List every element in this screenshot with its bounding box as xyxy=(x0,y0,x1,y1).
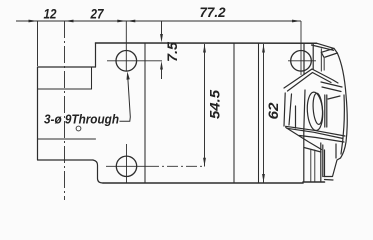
dim 7.5 top shaft xyxy=(161,21,163,35)
centerline bottom hole horizontal xyxy=(106,165,148,167)
arrow 7.5 down xyxy=(160,34,163,43)
leg x304 xyxy=(303,131,305,182)
facet line right xyxy=(328,96,340,99)
flange internal line y139 xyxy=(38,138,96,140)
head vertical stub x324 xyxy=(323,58,325,71)
dim 62 line xyxy=(263,44,265,183)
roller bracket left edge xyxy=(304,90,305,131)
head top inner parallel xyxy=(312,45,334,50)
head left edge pair xyxy=(284,93,285,126)
leg x315 xyxy=(314,150,316,182)
arrow 54.5 up xyxy=(203,44,206,53)
lever upper parallel edge xyxy=(287,128,343,138)
leg x311 xyxy=(310,150,312,182)
leader line xyxy=(120,78,131,122)
head chamfer facet xyxy=(321,48,337,57)
actuator head pictorial xyxy=(284,43,347,182)
centerline bottom hole vertical xyxy=(126,144,128,183)
inner curve right xyxy=(341,95,344,154)
hole right (pivot) xyxy=(291,51,312,72)
band line 1 xyxy=(321,82,342,87)
head vertical edge x313 xyxy=(312,43,314,69)
body internal vertical x145 xyxy=(144,43,146,183)
head right outer edge xyxy=(337,53,347,158)
svg-text:7.5: 7.5 xyxy=(164,42,180,62)
arrow 54.5 down xyxy=(203,158,206,167)
arrow 77.2 right xyxy=(292,20,301,23)
body internal vertical x258.5 xyxy=(258,43,260,183)
vertical pair right of roller xyxy=(324,95,326,127)
foot left vertical xyxy=(324,150,326,177)
head bottom edge xyxy=(303,181,325,183)
head vertical edge x321.4 xyxy=(320,49,322,71)
head roof line xyxy=(284,69,338,88)
leg x323 xyxy=(322,145,324,177)
lever mid edge xyxy=(300,136,345,143)
centerline top hole vertical xyxy=(125,21,127,72)
svg-text:54.5: 54.5 xyxy=(207,90,223,119)
head roof parallel line xyxy=(288,73,332,92)
roller inner ellipse xyxy=(312,93,323,125)
centerline top hole horizontal xyxy=(107,60,162,62)
centerline flange vertical xyxy=(64,21,66,200)
lever diagonal edge xyxy=(286,128,322,150)
arrow 62 down xyxy=(262,174,265,183)
lever upper edge xyxy=(286,126,346,136)
part body top edge xyxy=(96,42,317,44)
leader arrow xyxy=(127,72,130,80)
centerlines xyxy=(65,21,317,200)
arrow 12 left xyxy=(29,20,38,23)
dim line top horizontal xyxy=(16,20,301,22)
hole bottom xyxy=(116,156,136,176)
flange internal line y89 xyxy=(38,88,92,90)
arrow 27 right xyxy=(117,20,126,23)
body bottom edge xyxy=(103,182,303,184)
leg x321 xyxy=(320,143,322,182)
part body left edge xyxy=(95,43,97,67)
vertical right of lever xyxy=(335,144,337,158)
flange outline xyxy=(38,67,96,160)
roller outer ellipse xyxy=(306,92,324,131)
flange internal vertical x91.5 xyxy=(91,67,93,89)
centerline bottom hole horizontal dashed extension xyxy=(148,165,205,167)
arrow 77.2 left xyxy=(126,20,135,23)
svg-text:62: 62 xyxy=(265,102,281,119)
band line 2 xyxy=(322,87,341,92)
dimension lines xyxy=(16,21,301,183)
arrow 12 right / 27 left xyxy=(65,20,74,23)
lever bottom short edge xyxy=(304,148,321,153)
S-step from flange to body bottom xyxy=(93,160,103,183)
arrowheads xyxy=(29,20,302,183)
body internal vertical x234 xyxy=(233,43,235,183)
svg-text:12: 12 xyxy=(44,6,57,22)
centerline right hole vertical xyxy=(300,21,302,75)
foot right xyxy=(324,158,341,177)
svg-text:77.2: 77.2 xyxy=(200,4,226,20)
arrow 7.5 up xyxy=(160,61,163,70)
extension line x37.5 xyxy=(37,21,39,66)
head left junction vertical x304 xyxy=(303,43,305,74)
hole top-left xyxy=(116,51,137,72)
centerline right hole horizontal xyxy=(288,60,316,62)
svg-text:27: 27 xyxy=(90,6,105,22)
dim 54.5 line xyxy=(204,44,206,167)
head inner vertical x295.5 xyxy=(295,106,297,128)
small circle mark xyxy=(76,126,81,131)
head top slope xyxy=(317,43,335,48)
foot bottom xyxy=(325,179,334,182)
dim 7.5 bottom shaft xyxy=(161,68,163,79)
arrow 62 up xyxy=(262,44,265,53)
svg-text:3-ø 9Through: 3-ø 9Through xyxy=(44,113,119,127)
